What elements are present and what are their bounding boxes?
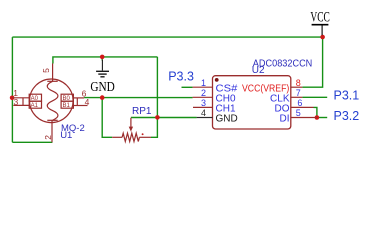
wire bottom left to MQ-2 pin2 xyxy=(12,141,52,143)
svg-text:2: 2 xyxy=(201,88,206,98)
power VCC symbol xyxy=(312,25,329,36)
pin 6 stub xyxy=(291,106,314,108)
wire gnd rail from MQ-2 pin5 xyxy=(53,57,157,64)
svg-text:1: 1 xyxy=(201,78,206,88)
svg-text:P3.1: P3.1 xyxy=(334,89,360,103)
wire down to RP1 left terminal xyxy=(102,98,112,138)
heater bottom bar xyxy=(47,119,57,121)
electrode box B0 xyxy=(61,94,73,101)
RP1 wiper stem xyxy=(130,118,132,128)
svg-text:RP1: RP1 xyxy=(132,106,152,117)
svg-text:7: 7 xyxy=(296,88,301,98)
pin 4 stub (gnd, black) xyxy=(197,117,213,119)
pin 3 stub xyxy=(193,106,213,108)
svg-text:B1: B1 xyxy=(63,103,71,109)
heater top bar xyxy=(47,80,57,82)
wire pin5 junction to P3.2 xyxy=(317,117,327,119)
wire top horizontal VCC rail xyxy=(12,36,322,38)
ADC pin stubs left xyxy=(193,87,213,107)
pin 6-4 tie bar xyxy=(76,98,78,106)
svg-text:3: 3 xyxy=(14,97,19,107)
svg-text:P3.2: P3.2 xyxy=(334,109,360,123)
electrode labels A0 A1 B0 B1 xyxy=(31,96,71,109)
chip outline xyxy=(213,76,291,129)
pin1 indicator dot xyxy=(215,78,219,82)
pin 6 line xyxy=(73,97,84,99)
svg-text:GND: GND xyxy=(216,114,238,125)
wire MQ-2 output to CH0 xyxy=(84,97,193,99)
svg-text:B0: B0 xyxy=(63,96,71,102)
svg-text:6: 6 xyxy=(297,98,302,108)
pin 2 line xyxy=(51,120,53,142)
pin 2 stub xyxy=(193,96,213,98)
electrode box B1 xyxy=(61,101,73,108)
wire pin6 corner down xyxy=(314,107,317,117)
pin 1 line xyxy=(12,97,29,99)
RP1 right terminal xyxy=(139,136,151,138)
svg-text:U1: U1 xyxy=(60,130,72,141)
pin 8 stub xyxy=(291,86,303,88)
MQ-2 pin numbers xyxy=(13,68,89,140)
pin 5 stub xyxy=(291,117,317,119)
pin 5 line xyxy=(52,64,54,82)
svg-text:U2: U2 xyxy=(252,65,265,76)
wire pin7 to P3.1 xyxy=(302,96,327,98)
svg-text:P3.3: P3.3 xyxy=(168,70,194,84)
wire: top rail xyxy=(12,37,327,142)
wire right vertical to RP1 right terminal xyxy=(151,57,157,137)
RP1 zigzag body xyxy=(122,133,139,141)
pin 1 stub xyxy=(193,86,213,88)
node junction left rail / MQ-2 pins 1,3 xyxy=(10,96,15,101)
svg-text:GND: GND xyxy=(90,80,115,95)
RP1 wiper arrowhead xyxy=(129,127,133,132)
wire P3.3 stub xyxy=(182,86,193,88)
wire RP1 wiper to ADC GND pin4 xyxy=(131,117,197,119)
svg-text:5: 5 xyxy=(41,68,51,73)
ADC pin numbers xyxy=(201,78,302,118)
node junction MQ-2 out / RP1 left xyxy=(100,95,105,100)
wire left vertical xyxy=(11,37,13,142)
electrode box A0 xyxy=(29,94,41,101)
sensor body circle xyxy=(30,79,74,123)
svg-text:4: 4 xyxy=(201,108,206,118)
wire gnd symbol stem upper xyxy=(101,57,103,61)
RP1 left terminal xyxy=(112,136,122,138)
heater wavy element xyxy=(47,81,58,120)
svg-text:5: 5 xyxy=(296,108,301,118)
ADC pin names xyxy=(216,83,290,124)
node junction VCC rail / power symbol xyxy=(320,35,325,40)
potentiometer RP1 xyxy=(112,118,151,142)
electrode box A1 xyxy=(29,101,41,108)
node junction RP1 wiper / gnd net xyxy=(155,115,160,120)
pin 3 line xyxy=(13,104,29,106)
ground earth symbol xyxy=(96,60,109,77)
gas sensor U1 MQ-2 xyxy=(12,64,88,143)
svg-text:DI: DI xyxy=(280,114,290,125)
svg-text:A0: A0 xyxy=(31,96,39,102)
svg-text:VCC: VCC xyxy=(310,10,330,26)
ADC U2 body xyxy=(213,76,291,129)
svg-text:2: 2 xyxy=(43,135,53,140)
ADC pin stubs right xyxy=(291,87,317,117)
svg-text:8: 8 xyxy=(296,78,301,88)
svg-text:4: 4 xyxy=(85,97,90,107)
node junction DO-DI tie xyxy=(315,115,320,120)
node junction gnd rail / earth symbol xyxy=(100,55,105,60)
pin 4 line xyxy=(73,105,87,107)
pin 7 stub xyxy=(291,96,303,98)
svg-text:3: 3 xyxy=(201,98,206,108)
svg-text:A1: A1 xyxy=(31,103,39,109)
wire pin8 to VCC rail xyxy=(302,37,322,87)
RP1 asterisk mark xyxy=(142,133,144,135)
pin 1-3 tie bar xyxy=(22,98,24,106)
